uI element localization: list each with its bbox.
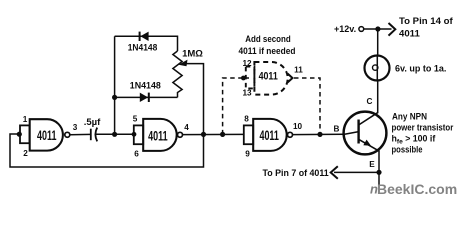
svg-text:13: 13 [242, 89, 252, 98]
junction dot dashed branch left [220, 132, 225, 137]
dashed wire up to optional gate inputs [223, 78, 249, 134]
lamp DS1 circle [365, 56, 390, 81]
capacitor C1 .5uf left plate [90, 129, 92, 141]
wire lamp top to +12v rail [377, 29, 379, 56]
wire U1C output to transistor base [293, 133, 345, 135]
svg-text:4011: 4011 [148, 128, 168, 143]
svg-text:1N4148: 1N4148 [130, 81, 161, 91]
svg-text:Any NPN: Any NPN [392, 112, 427, 122]
svg-text:E: E [369, 160, 375, 169]
svg-text:4011: 4011 [37, 128, 57, 143]
svg-text:12: 12 [242, 59, 252, 68]
svg-text:B: B [334, 125, 340, 134]
svg-text:5: 5 [133, 115, 138, 124]
Q1 base bar [357, 120, 359, 144]
svg-text:Add second: Add second [245, 34, 291, 44]
svg-text:9: 9 [245, 150, 250, 159]
svg-text:4011: 4011 [259, 128, 279, 143]
svg-text:4011: 4011 [259, 70, 278, 82]
U2A output chevron pin 11 [288, 74, 293, 83]
node A junction dot on main wire [112, 132, 117, 137]
junction dot at optional gate input [241, 76, 246, 81]
svg-text:2: 2 [23, 149, 28, 158]
svg-text:4: 4 [184, 123, 189, 132]
arrow to pin 14 [389, 23, 396, 36]
svg-text:.5µf: .5µf [84, 117, 101, 128]
Q1 base lead wire [345, 132, 359, 135]
NAND gate U2A optional 4011 body dashed [254, 62, 287, 95]
wire bottom of diode loop [115, 96, 178, 98]
svg-text:1: 1 [23, 115, 28, 124]
wire U1B output to U1C input [183, 133, 245, 135]
potentiometer R1 zigzag body [173, 51, 182, 97]
wire +12v rail [364, 28, 392, 30]
wire capacitor to U1B input [95, 133, 134, 135]
svg-text:6v. up to 1a.: 6v. up to 1a. [395, 63, 446, 73]
svg-text:+12v.: +12v. [334, 24, 356, 34]
svg-text:To Pin 14 of: To Pin 14 of [399, 16, 453, 27]
svg-text:3: 3 [73, 123, 78, 132]
junction dot at U1B input bracket [132, 132, 137, 137]
svg-text:1MΩ: 1MΩ [182, 49, 203, 60]
wire collector up to lamp [377, 82, 379, 113]
transistor Q1 circle [344, 112, 387, 155]
wire feedback loop from gate U1B output node to U1A inputs [10, 134, 204, 167]
svg-text:11: 11 [294, 66, 303, 75]
wire U1A output to capacitor [70, 133, 91, 135]
NAND gate U1A 4011 body [30, 119, 63, 150]
dashed wire from U2A output down to U1C output node [294, 78, 320, 134]
svg-text:C: C [367, 97, 373, 106]
U1B output bubble pin 4 [178, 132, 183, 137]
junction dot optional gate output tie-in [317, 132, 322, 137]
wire wiper to U1B output node [185, 64, 204, 135]
NAND gate U1C 4011 input bracket pins 8,9 [244, 125, 253, 144]
diode D1 1N4148 pointing left [140, 32, 148, 41]
svg-text:8: 8 [244, 115, 249, 124]
junction dot wiper/feedback node [201, 132, 206, 137]
junction dot at bottom diode wire [112, 95, 117, 100]
Q1 collector stroke [359, 112, 379, 125]
wire arrow to pin 7 [334, 171, 379, 173]
wire emitter down [378, 151, 380, 186]
svg-text:4011: 4011 [399, 28, 420, 39]
diode D2 1N4148 pointing right [140, 93, 148, 102]
NAND gate U1A 4011 input bracket pins 1,2 [20, 125, 30, 143]
svg-text:1N4148: 1N4148 [128, 43, 158, 53]
svg-text:possible: possible [392, 145, 423, 155]
wire node A vertical riser [114, 36, 116, 134]
node junction at U1A input [17, 132, 22, 137]
svg-text:4011 if needed: 4011 if needed [239, 46, 296, 56]
NAND gate U1B 4011 input bracket pins 5,6 [134, 125, 143, 144]
svg-text:To Pin 7 of 4011: To Pin 7 of 4011 [263, 168, 329, 178]
capacitor C1 right plate [95, 128, 97, 142]
U1C output bubble pin 10 [288, 132, 293, 137]
junction dot on +12v rail [375, 26, 380, 31]
NAND gate U1C 4011 body [253, 119, 286, 151]
svg-text:10: 10 [293, 122, 303, 131]
R1 wiper arrow [179, 60, 188, 67]
svg-text:6: 6 [134, 150, 139, 159]
Q1 emitter stroke with arrow [359, 139, 380, 151]
junction dot at emitter arrow branch [376, 170, 381, 175]
svg-text:BeekIC.com: BeekIC.com [377, 181, 457, 197]
+12v terminal open circle [359, 27, 364, 32]
svg-text:power transistor: power transistor [392, 123, 454, 133]
U1A output bubble pin 3 [65, 132, 70, 137]
NAND gate U2A optional 4011 input bracket pins 12,13 dashed [246, 67, 255, 89]
NAND gate U1B 4011 body [143, 119, 176, 151]
wire top of diode loop [115, 36, 178, 51]
lamp filament [376, 56, 378, 80]
